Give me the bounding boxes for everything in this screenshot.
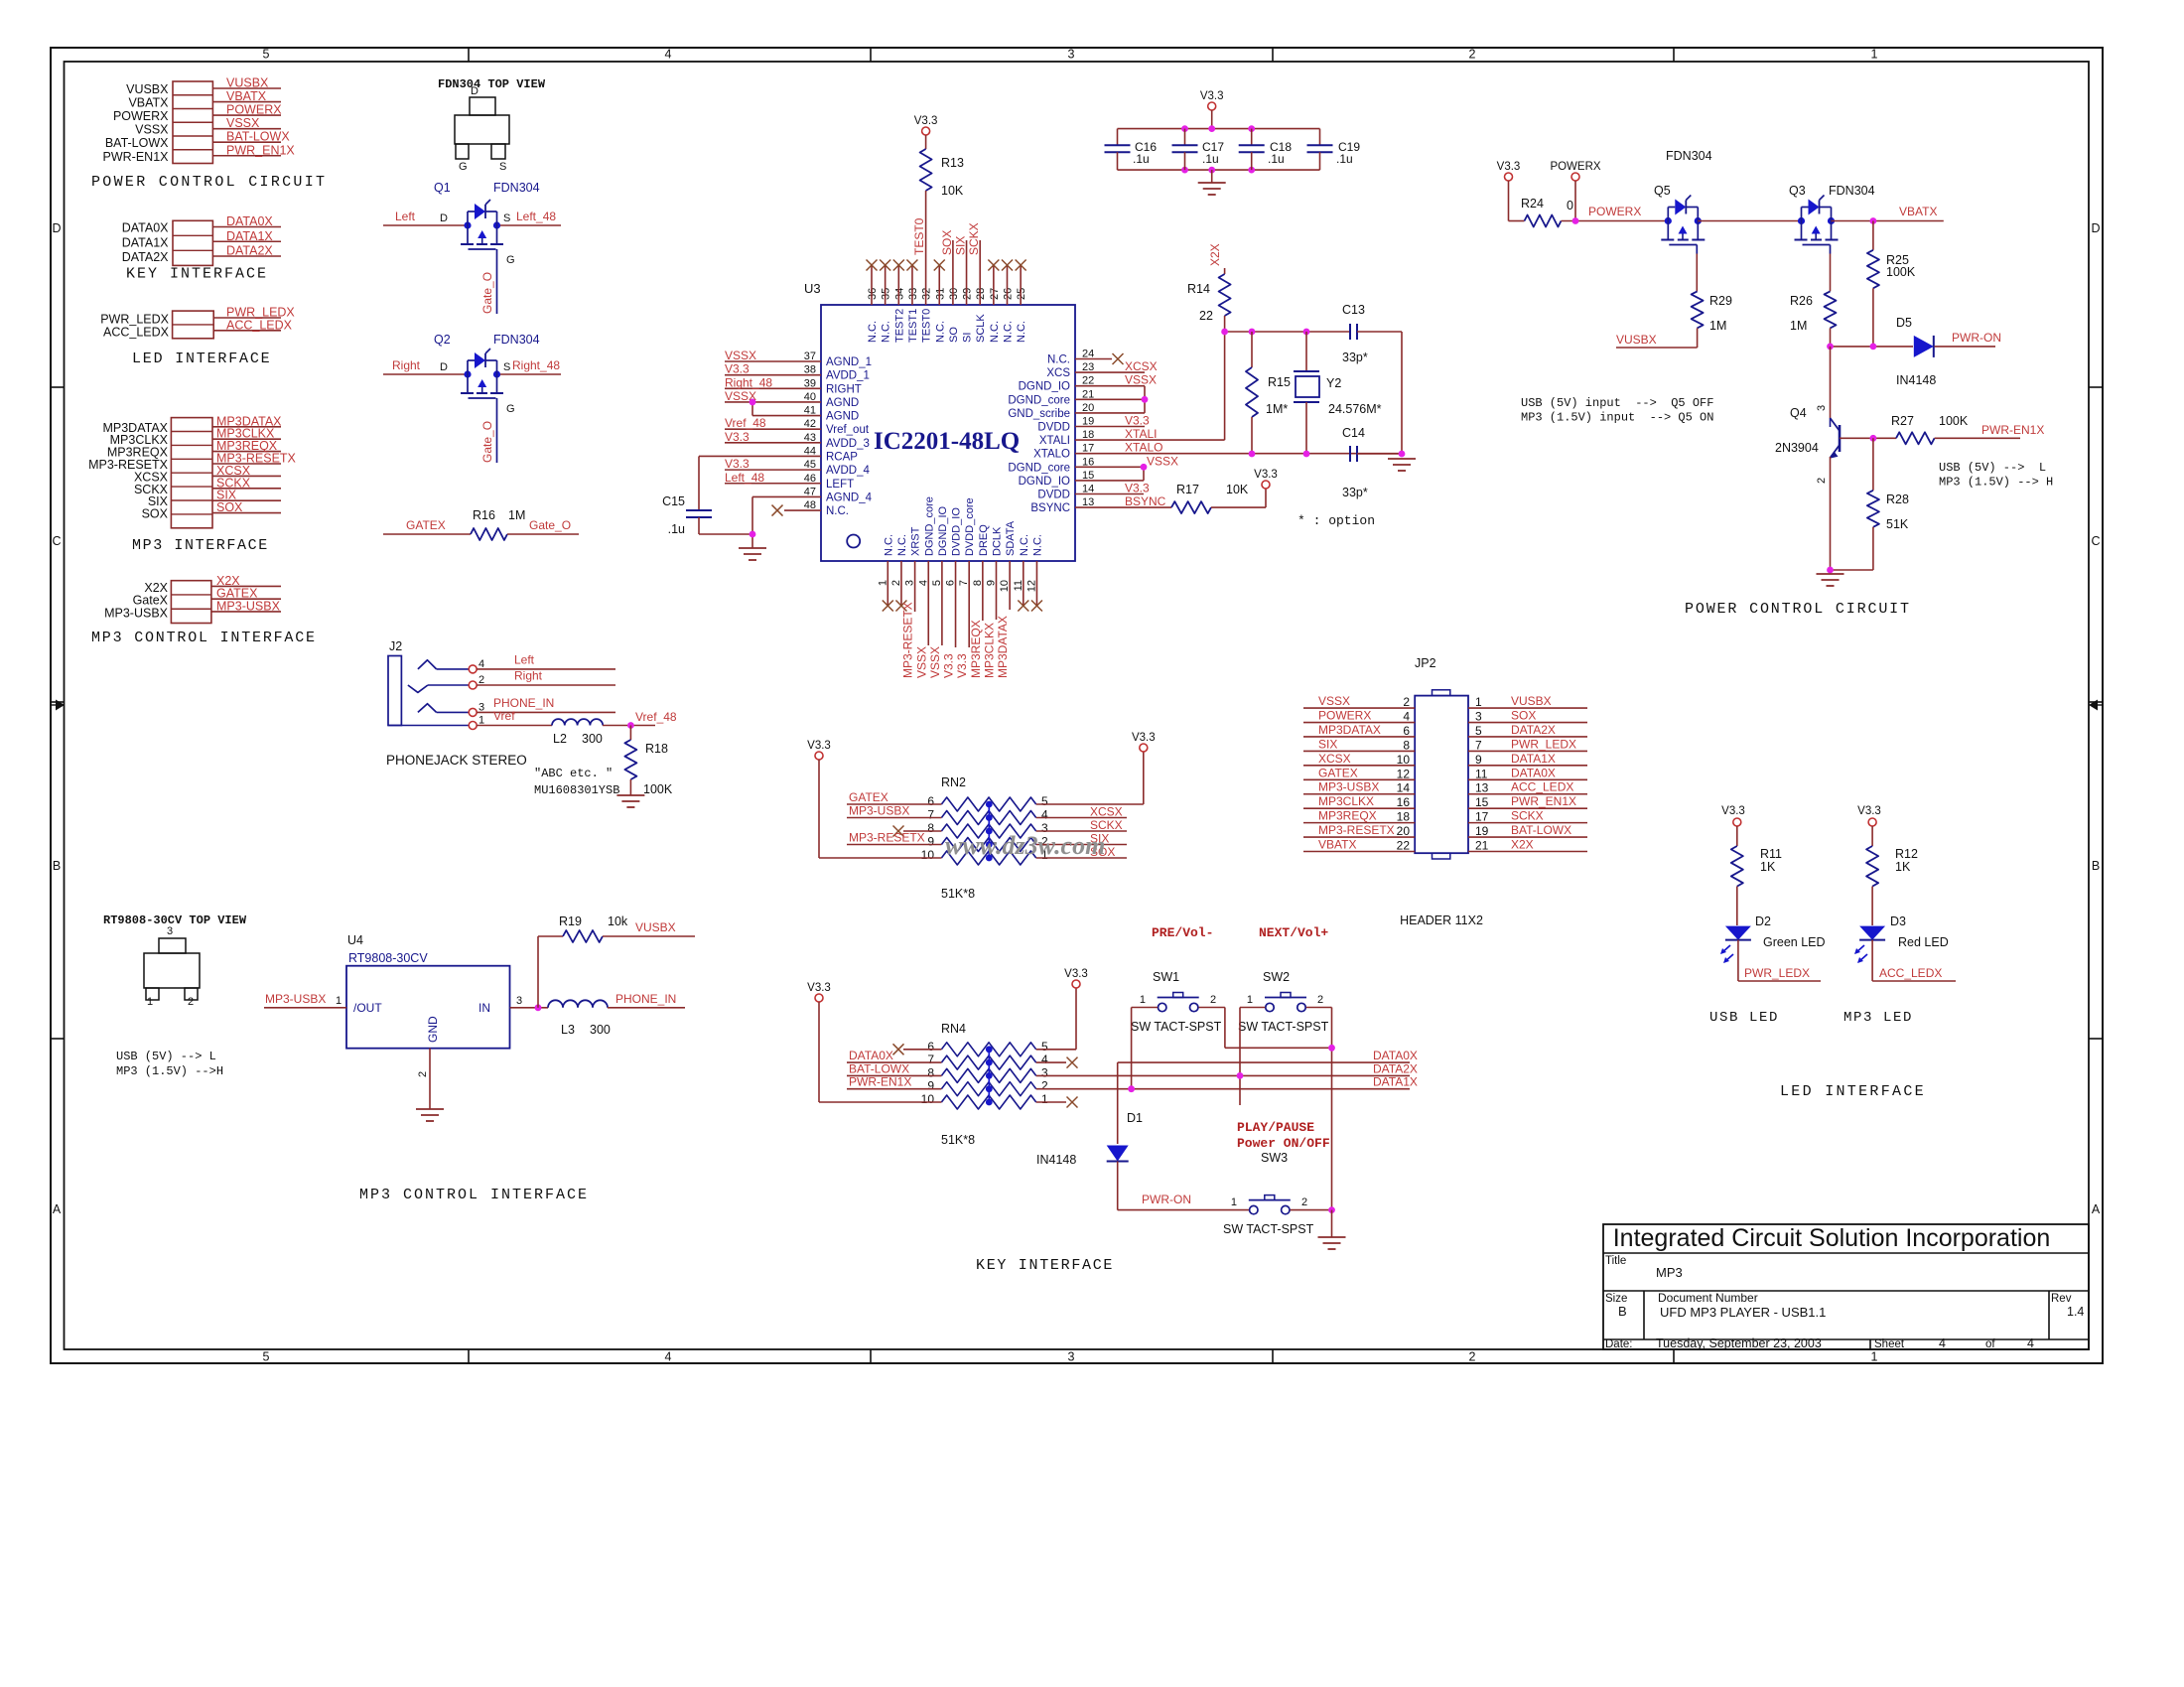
svg-text:9: 9 [927,1079,934,1093]
svg-text:1: 1 [1871,48,1878,62]
svg-text:PWR_LEDX: PWR_LEDX [1511,737,1576,751]
svg-text:A: A [53,1202,62,1216]
svg-text:VUSBX: VUSBX [226,76,269,90]
svg-text:D: D [2091,221,2100,235]
svg-text:1K: 1K [1895,860,1911,874]
svg-text:SW3: SW3 [1261,1151,1288,1165]
svg-text:RN4: RN4 [941,1022,966,1036]
node POWERX port [1571,173,1579,181]
svg-text:MP3-RESETX: MP3-RESETX [1318,823,1395,837]
svg-text:IC2201-48LQ: IC2201-48LQ [874,428,1020,455]
ground SW3 [1318,1236,1346,1238]
svg-text:33: 33 [907,288,919,300]
wire VSSX bracket pins 16-15 [1075,466,1144,468]
jack pin1 sleeve [388,725,469,727]
svg-text:10K: 10K [941,184,964,198]
no-connect marks top pins [867,260,878,271]
wire XTALI pin18 [1075,439,1225,441]
svg-text:R17: R17 [1176,483,1199,496]
svg-text:100K: 100K [643,782,673,796]
svg-text:HEADER 11X2: HEADER 11X2 [1400,914,1483,927]
svg-text:FDN304: FDN304 [1666,149,1712,163]
svg-text:MP3CLKX: MP3CLKX [1318,794,1374,808]
resistor R25 100K [1872,221,1874,250]
svg-text:51K: 51K [1886,517,1909,531]
svg-text:VUSBX: VUSBX [635,920,676,934]
svg-text:MU1608301YSB: MU1608301YSB [534,783,619,797]
svg-text:1: 1 [336,995,341,1007]
svg-text:2: 2 [1041,1079,1048,1093]
svg-text:29: 29 [962,288,974,300]
svg-text:SCKX: SCKX [1511,809,1544,823]
svg-text:6: 6 [927,1040,934,1054]
svg-text:N.C.: N.C. [1031,534,1043,556]
svg-text:15: 15 [1475,795,1489,809]
svg-text:Gate_O: Gate_O [480,421,494,463]
svg-text:DATA1X: DATA1X [1373,1075,1418,1089]
svg-text:MP3 INTERFACE: MP3 INTERFACE [132,537,269,554]
wire VSSX bracket pins 22-20 [1075,385,1145,387]
svg-text:R11: R11 [1760,847,1782,861]
svg-text:7: 7 [927,1053,934,1066]
svg-text:Right: Right [392,358,421,372]
transistor Q4 2N3904 [1830,347,1832,418]
svg-text:S: S [503,361,510,373]
svg-text:of: of [1985,1338,1995,1350]
svg-text:V3.3: V3.3 [1125,414,1150,428]
ground R18 [616,794,644,796]
svg-text:Q5: Q5 [1654,184,1671,198]
svg-text:DVDD: DVDD [1037,422,1070,434]
svg-text:SDATA: SDATA [1005,520,1017,556]
svg-text:2: 2 [1469,48,1476,62]
svg-text:X2X: X2X [1511,838,1534,852]
svg-text:AGND_4: AGND_4 [826,492,873,503]
svg-text:N.C.: N.C. [1019,534,1030,556]
svg-text:3: 3 [1041,1065,1048,1079]
led D3 Red LED [1859,926,1885,940]
svg-text:DATA2X: DATA2X [1511,723,1556,737]
svg-text:AVDD_1: AVDD_1 [826,370,870,382]
svg-text:R12: R12 [1895,847,1918,861]
node V3.3 power [1505,173,1513,181]
svg-text:1M: 1M [508,508,525,522]
resistor network RN2 51K*8 [815,752,823,760]
svg-text:V3.3: V3.3 [942,653,956,678]
svg-text:16: 16 [1397,795,1411,809]
svg-text:1M: 1M [1709,319,1726,333]
svg-text:TEST1: TEST1 [907,309,919,343]
svg-text:1: 1 [1140,994,1146,1006]
jack contact pin4 [418,660,437,669]
svg-text:R26: R26 [1790,294,1813,308]
svg-text:3: 3 [1068,1350,1075,1364]
svg-text:Q4: Q4 [1790,406,1807,420]
svg-text:PHONE_IN: PHONE_IN [493,696,554,710]
svg-text:FDN304 TOP VIEW: FDN304 TOP VIEW [438,77,546,91]
svg-text:KEY INTERFACE: KEY INTERFACE [126,266,268,283]
svg-text:ACC_LEDX: ACC_LEDX [1879,966,1942,980]
svg-text:1: 1 [1231,1196,1237,1208]
svg-text:SW2: SW2 [1263,970,1290,984]
svg-text:BAT-LOWX: BAT-LOWX [226,130,290,144]
svg-text:31: 31 [934,288,946,300]
svg-text:* : option: * : option [1297,513,1375,528]
svg-text:SOX: SOX [216,500,243,514]
capacitor C14 33p [1349,446,1351,462]
wire V3.3 decoupling rail [1208,102,1216,110]
wire crystal top rail [1225,331,1350,333]
svg-text:Right_48: Right_48 [512,358,560,372]
svg-text:5: 5 [263,1350,270,1364]
svg-text:2: 2 [188,996,194,1008]
svg-text:DVDD: DVDD [1037,490,1070,501]
Q1 mosfet symbol [464,221,471,228]
svg-text:N.C.: N.C. [826,505,849,517]
svg-text:33p*: 33p* [1342,486,1368,499]
svg-text:2N3904: 2N3904 [1775,441,1819,455]
svg-text:Sheet: Sheet [1874,1338,1905,1350]
svg-text:Vref_48: Vref_48 [635,710,677,724]
svg-text:XTALO: XTALO [1033,449,1070,461]
svg-text:DGND_core: DGND_core [923,496,935,556]
svg-text:USB LED: USB LED [1709,1010,1779,1026]
wire Q4 emitter to ground [1831,569,1873,571]
svg-text:GATEX: GATEX [1318,766,1358,779]
svg-text:DATA2X: DATA2X [122,250,169,264]
svg-text:DATA2X: DATA2X [226,244,273,258]
svg-text:JP2: JP2 [1415,656,1436,670]
wire RN2 pin5 to V3.3 [1036,803,1144,805]
svg-text:NEXT/Vol+: NEXT/Vol+ [1259,925,1328,940]
svg-text:PRE/Vol-: PRE/Vol- [1152,925,1213,940]
svg-text:Right_48: Right_48 [725,375,772,389]
svg-text:MP3-RESETX: MP3-RESETX [901,602,915,678]
svg-text:PWR-ON: PWR-ON [1952,331,2001,345]
U3 bottom pin stubs [887,561,888,606]
resistor R11 1K [1736,826,1738,846]
svg-text:3: 3 [1475,710,1482,724]
svg-text:SI: SI [962,333,974,343]
svg-text:AVDD_4: AVDD_4 [826,465,870,477]
svg-text:13: 13 [1082,496,1094,508]
svg-text:D3: D3 [1890,914,1906,928]
resistor R13 10K pull-up [922,127,930,135]
wire Left to Q1 drain [383,224,468,226]
svg-text:MP3REQX: MP3REQX [969,620,983,678]
svg-text:19: 19 [1475,824,1489,838]
svg-text:35: 35 [881,288,892,300]
wire BAT-LOWX to RN4 pin8 [847,1074,941,1076]
svg-text:R18: R18 [645,742,668,756]
svg-text:34: 34 [893,288,905,300]
svg-text:V3.3: V3.3 [1200,90,1224,102]
svg-text:36: 36 [867,288,879,300]
svg-text:AGND_1: AGND_1 [826,356,872,368]
svg-text:Vref_out: Vref_out [826,424,870,436]
svg-text:MP3-USBX: MP3-USBX [216,599,281,613]
svg-text:SCKX: SCKX [967,222,981,255]
svg-text:L3: L3 [561,1023,575,1037]
U3 right pin stubs [1075,358,1112,360]
svg-text:D: D [440,212,448,224]
resistor R27 100K [1896,432,1935,444]
svg-text:XCSX: XCSX [1125,359,1158,373]
svg-text:22: 22 [1199,309,1213,323]
svg-text:33p*: 33p* [1342,351,1368,364]
wire PWR-ON node [1831,346,1914,348]
svg-text:N.C.: N.C. [883,534,894,556]
svg-text:20: 20 [1397,824,1411,838]
svg-text:N.C.: N.C. [1003,321,1015,343]
svg-text:Left: Left [514,653,535,667]
svg-text:MP3-USBX: MP3-USBX [849,804,909,818]
wire ACC_LEDX [1872,980,1956,982]
svg-text:10K: 10K [1226,483,1249,496]
svg-text:Integrated Circuit Solution In: Integrated Circuit Solution Incorporatio… [1613,1224,2051,1252]
svg-text:2: 2 [1816,478,1828,484]
svg-text:9: 9 [927,835,934,849]
resistor R16 1M [383,533,471,535]
svg-text:D: D [52,221,61,235]
svg-text:SIX: SIX [954,236,968,255]
jack pin circles [469,665,477,673]
svg-text:A: A [2092,1202,2101,1216]
resistor R17 10K [1171,501,1211,513]
svg-text:FDN304: FDN304 [493,333,540,347]
svg-text:PWR-ON: PWR-ON [1142,1193,1191,1206]
svg-text:2: 2 [1469,1350,1476,1364]
svg-text:R29: R29 [1709,294,1732,308]
svg-text:Right: Right [514,669,543,683]
svg-text:POWERX: POWERX [1588,205,1641,218]
svg-text:G: G [506,254,515,266]
svg-text:TEST2: TEST2 [893,309,905,343]
svg-text:R16: R16 [473,508,495,522]
svg-text:G: G [459,161,468,173]
wire Left out [477,668,615,670]
svg-text:TEST0: TEST0 [912,217,926,255]
svg-text:ACC_LEDX: ACC_LEDX [226,318,293,332]
svg-text:R13: R13 [941,156,964,170]
node V3.3 usb led [1733,818,1741,826]
svg-text:51K*8: 51K*8 [941,887,975,901]
svg-text:27: 27 [989,288,1001,300]
svg-text:PHONE_IN: PHONE_IN [615,992,676,1006]
resistor R12 1K [1871,826,1873,846]
svg-text:2: 2 [1403,695,1410,709]
wire SW1 pin1 to DATA1X [1132,1007,1158,1009]
svg-text:VBATX: VBATX [226,89,267,103]
svg-text:POWERX: POWERX [1318,709,1371,723]
svg-text:D: D [471,85,478,97]
svg-text:Gate_O: Gate_O [529,518,571,532]
svg-text:C15: C15 [662,494,685,508]
no-connect marks bottom pins [883,601,893,612]
svg-text:DGND_core: DGND_core [1008,462,1070,474]
wire BSYNC pin13 through R17 [1075,506,1171,508]
svg-text:Green LED: Green LED [1763,935,1826,949]
svg-text:N.C.: N.C. [881,321,892,343]
svg-text:FDN304: FDN304 [493,181,540,195]
svg-text:10: 10 [1397,753,1411,767]
svg-text:11: 11 [1475,767,1488,780]
svg-text:25: 25 [1016,288,1027,300]
svg-text:D5: D5 [1896,316,1912,330]
svg-text:SIX: SIX [1318,737,1337,751]
svg-text:AGND: AGND [826,397,859,409]
svg-text:PWR_LEDX: PWR_LEDX [1744,966,1810,980]
svg-text:SW1: SW1 [1153,970,1179,984]
svg-text:Title: Title [1605,1255,1626,1267]
svg-text:5: 5 [1041,794,1048,808]
capacitor C17 .1u [1184,129,1186,146]
svg-text:Q3: Q3 [1789,184,1806,198]
svg-text:1M*: 1M* [1266,402,1288,416]
svg-text:18: 18 [1397,810,1411,824]
svg-text:VSSX: VSSX [725,349,756,362]
svg-text:MP3REQX: MP3REQX [1318,809,1377,823]
svg-text:300: 300 [582,732,603,746]
wire SW3 pin2 to ground [1291,1209,1332,1211]
svg-text:SW TACT-SPST: SW TACT-SPST [1238,1020,1329,1034]
svg-text:D1: D1 [1127,1111,1143,1125]
wire U4 IN pin3 [510,1007,548,1009]
svg-text:DATA0X: DATA0X [849,1049,893,1062]
svg-text:Red LED: Red LED [1898,935,1949,949]
svg-text:VBATX: VBATX [1899,205,1937,218]
svg-text:21: 21 [1475,839,1489,853]
svg-text:B: B [1618,1304,1627,1319]
svg-text:14: 14 [1397,781,1411,795]
svg-text:PLAY/PAUSE: PLAY/PAUSE [1237,1120,1314,1135]
svg-text:POWER CONTROL CIRCUIT: POWER CONTROL CIRCUIT [1685,601,1911,618]
svg-text:13: 13 [1475,781,1489,795]
svg-text:R15: R15 [1268,375,1291,389]
resistor R24 0 [1509,220,1525,222]
svg-text:XTALO: XTALO [1125,441,1162,455]
ground Q4 [1817,573,1844,575]
inductor L2 300 [477,725,552,727]
svg-text:MP3 LED: MP3 LED [1843,1010,1913,1026]
svg-text:Power ON/OFF: Power ON/OFF [1237,1136,1330,1151]
wire DATA1X long [1036,1088,1410,1090]
svg-text:VBATX: VBATX [1318,838,1356,852]
wire PWR_LEDX [1738,980,1821,982]
node V3.3 mp3 led [1868,818,1876,826]
capacitor C18 .1u [1251,129,1253,146]
svg-text:3: 3 [1068,48,1075,62]
svg-text:51K*8: 51K*8 [941,1133,975,1147]
svg-text:300: 300 [590,1023,611,1037]
svg-text:V3.3: V3.3 [807,982,831,994]
jack contact pin2 [408,685,428,692]
svg-text:VSSX: VSSX [1125,373,1157,387]
svg-text:1M: 1M [1790,319,1807,333]
svg-text:2: 2 [417,1071,429,1077]
svg-text:Tuesday, September 23, 2003: Tuesday, September 23, 2003 [1656,1336,1822,1350]
no-connect RN4 pin1 [1036,1101,1066,1103]
svg-text:RN2: RN2 [941,775,966,789]
svg-text:TEST0: TEST0 [921,309,933,343]
svg-text:PWR_EN1X: PWR_EN1X [1511,794,1576,808]
svg-text:24.576M*: 24.576M* [1328,402,1382,416]
svg-text:DGND_core: DGND_core [1008,394,1070,406]
wire DATA0X to RN4 pin7 [847,1061,941,1063]
svg-text:N.C.: N.C. [1047,354,1070,366]
svg-text:MP3 (1.5V) input --> Q5 ON: MP3 (1.5V) input --> Q5 ON [1521,411,1713,425]
svg-text:BAT-LOWX: BAT-LOWX [1511,823,1571,837]
svg-text:.1u: .1u [1268,152,1285,166]
svg-text:DGND_IO: DGND_IO [1019,381,1070,393]
svg-text:N.C.: N.C. [989,321,1001,343]
svg-text:N.C.: N.C. [867,321,879,343]
svg-text:3: 3 [516,995,522,1007]
svg-text:V3.3: V3.3 [1125,482,1150,495]
svg-text:V3.3: V3.3 [914,115,938,127]
svg-text:VSSX: VSSX [1147,454,1178,468]
svg-text:"ABC etc. ": "ABC etc. " [534,767,613,780]
net label V3.3 pin14 [1075,493,1144,495]
resistor R15 1M [1251,332,1253,367]
diode D5 IN4148 [1914,336,1934,357]
svg-text:BAT-LOWX: BAT-LOWX [105,136,169,150]
ground U4 [416,1108,444,1110]
led D2 Green LED [1725,926,1751,940]
svg-text:XTALI: XTALI [1039,435,1070,447]
svg-text:POWERX: POWERX [226,103,282,117]
jack contact pin3 [418,704,437,713]
svg-text:AGND: AGND [826,411,859,423]
svg-text:V3.3: V3.3 [1064,968,1088,980]
title block [1603,1224,2089,1349]
svg-text:Left_48: Left_48 [516,210,556,223]
svg-text:ACC_LEDX: ACC_LEDX [103,325,170,339]
svg-text:USB (5V) input --> Q5 OFF: USB (5V) input --> Q5 OFF [1521,396,1713,410]
capacitor C13 33p [1349,324,1351,340]
svg-text:17: 17 [1475,810,1489,824]
svg-text:SOX: SOX [940,230,954,255]
svg-text:100K: 100K [1886,265,1916,279]
svg-text:10: 10 [921,848,935,862]
svg-text:UFD MP3 PLAYER - USB1.1: UFD MP3 PLAYER - USB1.1 [1660,1305,1826,1320]
svg-text:R19: R19 [559,914,582,928]
svg-text:C: C [2091,534,2100,548]
ground crystal [1388,458,1416,460]
svg-text:V3.3: V3.3 [725,430,750,444]
svg-text:R28: R28 [1886,492,1909,506]
svg-text:DGND_IO: DGND_IO [1019,476,1070,488]
svg-text:/OUT: /OUT [353,1001,382,1015]
svg-text:Vref_48: Vref_48 [725,416,766,430]
inductor L3 300 [548,1000,608,1007]
svg-text:BAT-LOWX: BAT-LOWX [849,1061,909,1075]
node Vref_48 [627,722,634,729]
svg-text:7: 7 [927,808,934,822]
svg-text:R14: R14 [1187,282,1210,296]
svg-text:B: B [2092,859,2100,873]
svg-text:VBATX: VBATX [128,96,169,110]
wire SCKX from RN2 pin3 [1036,830,1127,832]
svg-text:.1u: .1u [1202,152,1219,166]
svg-text:R24: R24 [1521,197,1544,211]
crystal Y2 24.576M [1305,332,1307,371]
no-connect RN2 pin8 [903,830,941,832]
svg-text:Gate_O: Gate_O [480,272,494,314]
svg-text:5: 5 [1041,1040,1048,1054]
svg-text:3: 3 [167,925,173,937]
connector mp3 interface [171,418,212,528]
